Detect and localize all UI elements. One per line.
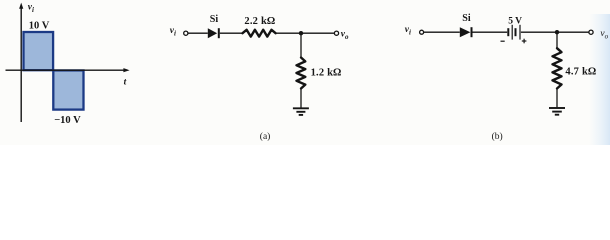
battery minus sign: [501, 40, 505, 42]
resistor R2 1.2 kOhm (a) vertical: [297, 58, 306, 89]
wire resistor to node (a): [276, 32, 335, 34]
ground symbol (a): [293, 107, 309, 109]
svg-text:2.2 kΩ: 2.2 kΩ: [244, 16, 275, 27]
input terminal circle (a): [184, 31, 188, 35]
wire resistor to ground (b): [556, 89, 558, 108]
waveform: vertical axis v_i: [20, 7, 22, 122]
battery E 5 V (b) : plates: [507, 28, 509, 36]
resistor R3 4.7 kOhm (b) vertical: [553, 48, 562, 88]
wire input to diode (b): [424, 31, 460, 33]
svg-text:Si: Si: [462, 13, 471, 24]
waveform: positive pulse (10 V): [24, 32, 54, 70]
wire node down to resistor (a): [300, 33, 302, 57]
diode D1 Si (a): [208, 28, 217, 38]
svg-text:vi: vi: [28, 2, 34, 14]
battery plus sign: [522, 40, 527, 42]
wire node down to resistor (b): [556, 32, 558, 48]
svg-text:1.2 kΩ: 1.2 kΩ: [311, 67, 342, 78]
input terminal circle (b): [420, 30, 424, 34]
wire diode to battery (b): [473, 31, 508, 33]
wire input to diode (a): [188, 32, 208, 34]
wire resistor to ground (a): [300, 89, 302, 108]
resistor R1 2.2 kOhm (a): [243, 30, 276, 37]
node junction dot (a): [299, 31, 303, 35]
svg-text:−10 V: −10 V: [54, 115, 81, 126]
svg-text:5 V: 5 V: [508, 17, 522, 27]
svg-text:(b): (b): [492, 131, 503, 142]
svg-text:Si: Si: [210, 14, 219, 25]
waveform: horizontal axis t: [6, 69, 125, 71]
output terminal circle (a): [334, 31, 338, 35]
svg-text:vi: vi: [170, 26, 176, 38]
svg-text:4.7 kΩ: 4.7 kΩ: [565, 66, 596, 77]
svg-text:(a): (a): [260, 131, 271, 142]
svg-text:vo: vo: [341, 30, 349, 42]
wire diode to resistor (a): [220, 32, 243, 34]
scan artifact: right edge blue band: [589, 14, 610, 145]
wire battery to node (b): [521, 31, 589, 33]
ground symbol (b): [549, 107, 565, 109]
svg-text:10 V: 10 V: [29, 21, 50, 32]
node junction dot (b): [555, 30, 559, 34]
waveform: negative pulse (-10 V): [53, 70, 83, 109]
output terminal circle (b): [589, 30, 593, 34]
svg-text:vi: vi: [405, 25, 411, 37]
diode D2 Si (b): [460, 27, 471, 37]
svg-text:t: t: [124, 78, 127, 88]
